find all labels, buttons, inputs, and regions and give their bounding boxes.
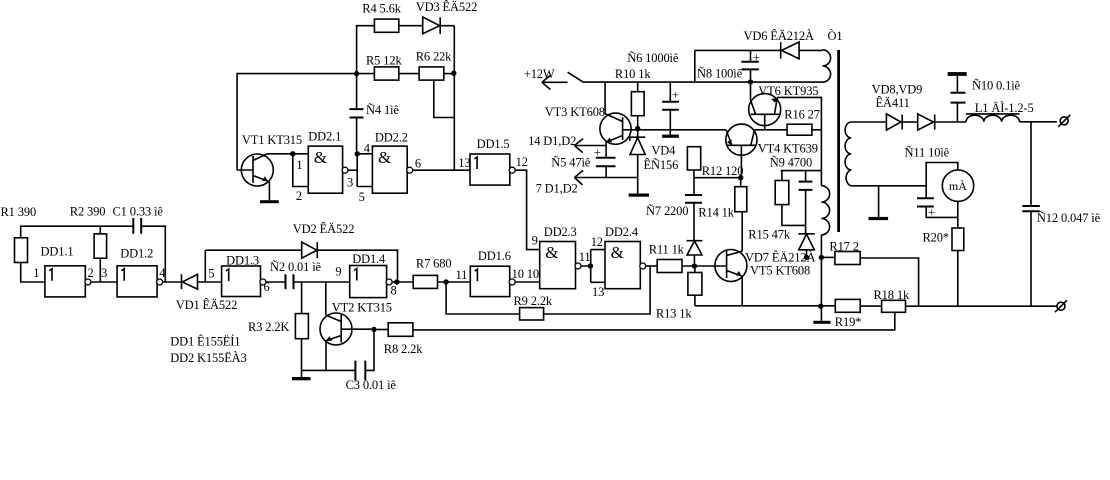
wire VD8 to VD9 — [902, 121, 918, 123]
svg-text:+: + — [672, 88, 679, 102]
wire C11 leads — [926, 186, 958, 218]
svg-text:&: & — [545, 243, 558, 262]
junction DD1.4 output node — [394, 279, 399, 284]
ground at R3 C3 rail — [292, 377, 311, 380]
transistor VT3 — [600, 113, 631, 144]
wire L1 to output terminal — [1020, 121, 1057, 123]
capacitor C11 polarized — [917, 198, 934, 206]
gate DD1.2 — [117, 266, 163, 297]
svg-text:DD1.6: DD1.6 — [478, 249, 511, 263]
svg-text:R4 5.6k: R4 5.6k — [362, 2, 401, 16]
wire R15 C9 top bus — [781, 170, 822, 172]
wire C1 right plate down to DD1.2 output node — [141, 226, 165, 282]
svg-text:13: 13 — [458, 156, 470, 170]
wire DD2.1 pin 2 loop — [293, 154, 309, 187]
capacitor C1 — [133, 218, 141, 234]
wire DD2.4 output to R11 — [645, 265, 657, 267]
ground at secondary winding — [869, 217, 889, 220]
junction VD7 chain output node — [804, 255, 809, 260]
svg-text:3: 3 — [347, 175, 353, 189]
svg-text:R2 390: R2 390 — [70, 205, 106, 219]
svg-text:VT6 KT935: VT6 KT935 — [758, 84, 818, 98]
svg-text:1: 1 — [296, 158, 302, 172]
svg-text:DD1.3: DD1.3 — [226, 253, 259, 267]
ground at VT1 emitter — [260, 200, 279, 203]
resistor R16 — [787, 124, 812, 135]
ground at R19 — [813, 321, 830, 324]
wire R12 bottom to VT4 base node — [694, 170, 741, 178]
transistor VT6 — [749, 94, 781, 126]
diode VD7 — [798, 234, 814, 250]
resistor R3 — [295, 314, 308, 339]
svg-text:VD4: VD4 — [651, 144, 676, 158]
resistor R13 — [688, 273, 702, 296]
svg-text:R20*: R20* — [923, 230, 950, 244]
wire VT4 collector to R16 — [754, 129, 787, 131]
svg-text:DD1.4: DD1.4 — [352, 252, 386, 266]
wire R7 to DD1.6 input pin 11 — [438, 281, 471, 283]
wire DD2.1 output to DD2.2 inputs 4 5 — [348, 154, 373, 187]
svg-text:+: + — [594, 146, 601, 160]
svg-text:DD2.1: DD2.1 — [308, 130, 341, 144]
resistor R15 — [775, 181, 789, 205]
terminal bottom output — [1055, 300, 1067, 312]
svg-text:R12 120: R12 120 — [702, 164, 744, 178]
diode VD1 — [182, 274, 198, 289]
wire VT3 collector drop — [604, 82, 606, 114]
svg-text:R15 47k: R15 47k — [748, 227, 791, 241]
svg-text:2: 2 — [296, 189, 302, 203]
svg-text:R19*: R19* — [835, 315, 862, 329]
wire R5 to R6 — [399, 73, 419, 75]
wire DD1.2 output to VD1 — [162, 281, 181, 283]
wire R3 top riser — [301, 282, 303, 314]
wire base rail VT3 to VT4 — [623, 129, 727, 131]
capacitor C4 — [350, 109, 364, 117]
svg-text:R7 680: R7 680 — [416, 257, 452, 271]
capacitor C8 polarized — [741, 62, 759, 70]
wire feedback riser to VD2 loop — [204, 250, 206, 282]
svg-text:R11 1k: R11 1k — [649, 243, 685, 257]
wire meter bottom to R20 — [957, 201, 959, 228]
wire R10 bottom to VD4 — [637, 116, 639, 138]
wire R9 right to DD2.4 output riser — [544, 266, 651, 314]
svg-text:12: 12 — [591, 235, 603, 249]
junction primary bottom R17 node — [819, 255, 824, 260]
wire VT6 emitter to transformer primary — [777, 97, 821, 185]
wire feedback drop to R9 — [446, 282, 519, 314]
svg-text:R17 2: R17 2 — [829, 239, 858, 253]
gate DD1.4 — [350, 266, 392, 298]
svg-text:&: & — [314, 148, 327, 167]
wire DD1.5 output pin 12 down to DD2.3 pin 9 — [515, 170, 540, 249]
svg-text:10 10: 10 10 — [512, 267, 539, 281]
svg-text:DD2.3: DD2.3 — [544, 225, 577, 239]
wire R10 top lead — [637, 82, 639, 92]
junction C4 DD2.2 input node — [355, 151, 360, 156]
svg-text:2: 2 — [88, 266, 94, 280]
transformer T1 secondary winding — [845, 122, 851, 186]
svg-text:ÊÄ411: ÊÄ411 — [876, 96, 910, 110]
wire upper rail to VD6 — [695, 49, 781, 51]
svg-text:L1 ÄÌ-1.2-5: L1 ÄÌ-1.2-5 — [975, 101, 1034, 115]
wire VT2 base — [341, 328, 374, 330]
resistor R8 — [388, 323, 413, 337]
svg-text:Ñ6 1000ìê: Ñ6 1000ìê — [627, 51, 679, 65]
junction C8 rail node — [748, 79, 753, 84]
wire R4 branch left riser — [357, 26, 375, 74]
svg-text:VD3 ÊÄ522: VD3 ÊÄ522 — [416, 0, 478, 14]
svg-text:11: 11 — [579, 250, 591, 264]
wire C12 top lead — [1030, 122, 1032, 206]
svg-text:R3 2.2K: R3 2.2K — [248, 320, 289, 334]
resistor R20 — [952, 228, 964, 251]
transistor VT1 — [241, 154, 273, 186]
svg-text:R13 1k: R13 1k — [656, 307, 692, 321]
wire R13 leads — [694, 266, 696, 306]
meter PA mA — [942, 170, 973, 201]
resistor R14 — [735, 187, 747, 212]
diode VD5 — [687, 241, 703, 255]
wire R17 left lead — [821, 256, 835, 258]
wire C3 left to R3 ground rail — [302, 369, 356, 371]
svg-text:mÀ: mÀ — [949, 179, 967, 193]
svg-text:VD2 ÊÄ522: VD2 ÊÄ522 — [293, 222, 355, 236]
svg-text:13: 13 — [592, 285, 604, 299]
svg-text:DD2.4: DD2.4 — [605, 225, 639, 239]
wire VT6 collector drop — [750, 82, 752, 99]
svg-text:Ñ7 2200: Ñ7 2200 — [646, 204, 688, 218]
gate DD2.2 — [372, 146, 412, 193]
svg-text:Ñ8 100ìê: Ñ8 100ìê — [697, 66, 743, 80]
diode VD3 — [423, 17, 441, 34]
gate DD1.5 — [470, 154, 515, 185]
svg-text:R8 2.2k: R8 2.2k — [384, 342, 423, 356]
svg-text:VT5 KT608: VT5 KT608 — [750, 264, 810, 278]
junction R19 output rail node — [818, 304, 823, 309]
junction node A R5 C4 — [354, 71, 359, 76]
wire ground stub below R19 node — [820, 306, 822, 321]
svg-text:VD6 ÊÄ212À: VD6 ÊÄ212À — [744, 29, 814, 43]
wire C4 top lead — [356, 74, 358, 110]
resistor R10 — [631, 92, 644, 116]
svg-text:9: 9 — [532, 234, 538, 248]
resistor R7 — [413, 275, 437, 288]
wire VT6 base lead — [764, 114, 766, 130]
svg-text:1: 1 — [33, 266, 39, 280]
resistor R19 — [835, 299, 860, 312]
wire R2 bottom lead — [99, 258, 101, 282]
switch stroke — [568, 72, 583, 82]
wire C6 top lead — [669, 82, 671, 102]
wire R20 bottom lead — [957, 251, 959, 307]
arrow 7 D1,D2 — [574, 170, 583, 185]
resistor R2 — [94, 234, 107, 258]
capacitor C10 — [951, 93, 966, 103]
wire R16 right to transformer riser — [812, 129, 822, 131]
svg-text:6: 6 — [415, 156, 421, 170]
svg-text:R18 1k: R18 1k — [874, 288, 910, 302]
wire VD2 loop top left — [205, 249, 301, 251]
capacitor C5 polarized — [596, 158, 616, 167]
wire R2 top lead — [99, 226, 101, 234]
diode VD8 — [886, 114, 902, 130]
resistor R17 — [835, 252, 860, 265]
wire R3 bottom lead — [301, 339, 303, 371]
svg-text:14 D1,D2: 14 D1,D2 — [528, 134, 576, 148]
wire C6 bottom lead to ground — [669, 110, 671, 135]
svg-text:9: 9 — [335, 264, 341, 278]
resistor R12 — [687, 147, 700, 170]
svg-text:Ñ9 4700: Ñ9 4700 — [770, 155, 812, 169]
svg-text:6: 6 — [264, 280, 270, 294]
junction node B R6 VD3 — [451, 71, 456, 76]
junction VT2 base R8 C3 node — [371, 327, 376, 332]
svg-text:VD8,VD9: VD8,VD9 — [872, 82, 923, 96]
svg-text:R16 27: R16 27 — [784, 107, 820, 121]
svg-text:C1 0.33 ìê: C1 0.33 ìê — [113, 205, 164, 219]
wire +12V arrow lead — [542, 81, 568, 83]
wire C4 bottom lead — [356, 118, 358, 154]
wire VD9 to L1 — [935, 121, 966, 123]
capacitor C6 polarized — [662, 102, 679, 110]
svg-text:Ò1: Ò1 — [828, 29, 843, 43]
arrow 14 D1,D2 — [574, 139, 583, 153]
capacitor C12 — [1022, 206, 1040, 211]
junction R7 DD1.6 node — [443, 279, 448, 284]
svg-text:DD1.1: DD1.1 — [41, 244, 74, 258]
transistor VT5 — [715, 250, 747, 282]
capacitor C3 — [355, 361, 365, 381]
svg-text:11: 11 — [456, 268, 468, 282]
wire R8 left to VT2 base node — [374, 329, 388, 331]
wire secondary top to VD8 — [851, 121, 886, 123]
wire VD3 right down to DD1.5 input — [440, 26, 454, 171]
wire bottom emitter rail to R19 chain — [695, 305, 1057, 307]
wire DD1.6 output pin 10 to DD2.3 pin 10 — [515, 281, 540, 283]
capacitor C7 — [685, 195, 702, 203]
wire R6 bottom hook — [434, 80, 455, 117]
svg-text:Ñ2 0.01 ìê: Ñ2 0.01 ìê — [270, 260, 322, 274]
diode VD2 — [302, 242, 318, 258]
wire VT4 base lead — [740, 145, 742, 177]
svg-text:&: & — [378, 148, 391, 167]
gate DD2.1 — [308, 146, 348, 193]
wire R5 left lead — [357, 73, 375, 75]
junction VT4 base R14 node — [738, 175, 743, 180]
transformer T1 primary bottom winding — [821, 186, 829, 235]
svg-text:DD1.2: DD1.2 — [120, 247, 153, 261]
wire DD1.1 output to DD1.2 input — [90, 281, 117, 283]
svg-text:+: + — [928, 206, 935, 220]
resistor R11 — [657, 260, 682, 273]
svg-text:Ñ11 10ìê: Ñ11 10ìê — [905, 145, 950, 159]
wire R4 to VD3 — [399, 25, 423, 27]
wire C11 top loop to meter top — [926, 163, 958, 186]
wire R1 top to C1 left (osc node A) — [21, 226, 134, 238]
svg-text:VT4 KT639: VT4 KT639 — [758, 142, 818, 156]
diode VD9 — [918, 114, 935, 130]
svg-text:VT2 KT315: VT2 KT315 — [332, 301, 392, 315]
wire R18 bottom tap feedback to R8 — [413, 312, 895, 330]
capacitor C2 — [286, 274, 294, 289]
svg-text:R6 22k: R6 22k — [416, 49, 452, 63]
svg-text:Ñ4 1ìê: Ñ4 1ìê — [366, 103, 399, 117]
resistor R5 — [374, 67, 398, 80]
wire VT5 emitter down — [741, 276, 743, 306]
wire C10 bottom lead — [956, 76, 958, 122]
svg-text:3: 3 — [101, 266, 107, 280]
wire R14 top to VT4 base node — [740, 178, 742, 187]
wire VT1 collector to DD2.1 pin 1 — [267, 153, 308, 155]
wire R15 leads — [782, 171, 806, 226]
arrow +12V supply — [542, 75, 551, 89]
svg-text:R5 12k: R5 12k — [366, 54, 402, 68]
svg-text:4: 4 — [364, 142, 371, 156]
svg-text:R9 2.2k: R9 2.2k — [514, 294, 553, 308]
gate DD1.6 — [470, 266, 515, 296]
ground below C6 — [662, 135, 679, 138]
wire VD2 loop top right down to DD1.4 output node — [317, 250, 397, 282]
svg-text:VT3 KT608: VT3 KT608 — [545, 105, 605, 119]
wire VT1 emitter down — [268, 181, 270, 200]
svg-text:DD2.2: DD2.2 — [375, 131, 408, 145]
wire DD2.3 output pin 11 to DD2.4 inputs 12 13 — [581, 250, 606, 283]
wire C3 right plate riser — [365, 330, 374, 371]
wire ground stub below R3 rail — [301, 370, 303, 377]
svg-text:R10 1k: R10 1k — [615, 67, 651, 81]
gate DD2.4 — [605, 242, 646, 289]
svg-text:Ñ5 47ìê: Ñ5 47ìê — [551, 155, 590, 169]
gate DD1.3 — [222, 266, 266, 297]
wire C8 leads — [750, 50, 752, 82]
capacitor C9 — [799, 182, 813, 190]
resistor R6 — [419, 67, 444, 80]
svg-text:R1 390: R1 390 — [1, 205, 37, 219]
svg-text:ÊÑ156: ÊÑ156 — [644, 158, 679, 172]
svg-text:C3 0.01 ìê: C3 0.01 ìê — [346, 378, 397, 392]
wire transformer primary bottom to R17 and R19 nodes — [820, 235, 822, 306]
wire VT2 emitter down — [325, 341, 327, 371]
inductor L1 — [966, 114, 1020, 122]
svg-text:DD2 K155ËÀ3: DD2 K155ËÀ3 — [170, 351, 246, 365]
wire secondary ground stub — [878, 186, 880, 217]
svg-text:DD1.5: DD1.5 — [477, 137, 510, 151]
wire R1 bottom to DD1.1 input pin 1 — [21, 263, 45, 283]
transistor VT4 — [726, 124, 757, 155]
junction VT1 collector node — [290, 151, 295, 156]
junction VD7 VT5 base node — [692, 263, 697, 268]
resistor R4 — [374, 19, 398, 32]
svg-text:5: 5 — [359, 190, 365, 204]
transformer T1 primary top winding — [823, 50, 831, 82]
wire DD1.4 output to R7 — [392, 281, 414, 283]
svg-text:+12W: +12W — [524, 67, 555, 81]
wire C2 to DD1.4 input pin 9 — [294, 281, 350, 283]
wire secondary bottom to C11 node — [851, 185, 926, 187]
wire R17 right loop down to output rail — [860, 258, 918, 306]
transistor VT2 — [320, 313, 352, 345]
wire DD2.2 output to DD1.5 input pin 13 — [412, 169, 470, 171]
diode VD6 — [781, 42, 799, 59]
svg-text:7 D1,D2: 7 D1,D2 — [536, 182, 578, 196]
svg-text:&: & — [611, 243, 624, 262]
svg-text:Ñ10 0.1ìê: Ñ10 0.1ìê — [972, 79, 1021, 93]
wire C7 VD5 chain — [693, 178, 695, 266]
zener diode VD4 — [630, 137, 646, 154]
terminal top output — [1058, 115, 1070, 127]
wire main +12V rail — [583, 81, 823, 83]
svg-text:VT1 KT315: VT1 KT315 — [242, 133, 302, 147]
wire VT5 collector to R14 — [741, 212, 743, 252]
wire VT2 collector riser — [325, 282, 327, 315]
junction DD2.3 output node — [588, 263, 593, 268]
gate DD2.3 — [540, 242, 581, 289]
svg-text:12: 12 — [516, 155, 528, 169]
wire riser between rails — [694, 50, 696, 82]
wire VT3 emitter and 14 D1,D2 arrow wire — [574, 142, 606, 158]
chassis bar above C10 — [948, 72, 967, 76]
ground at VD4 — [629, 194, 649, 197]
svg-text:5: 5 — [208, 266, 214, 280]
svg-text:DD1 Ê155ËÍ1: DD1 Ê155ËÍ1 — [170, 335, 240, 349]
svg-text:VD1 ÊÄ522: VD1 ÊÄ522 — [176, 298, 238, 312]
gate DD1.1 — [45, 266, 91, 297]
resistor R18 — [882, 300, 906, 312]
svg-text:4: 4 — [159, 266, 166, 280]
wire VD4 to ground — [637, 155, 639, 194]
wire VT1 base loop to R5 node — [237, 74, 357, 170]
resistor R1 — [15, 238, 28, 263]
resistor R9 — [520, 308, 544, 320]
svg-text:+: + — [753, 51, 760, 65]
wire C5 bottom and 7 D1,D2 arrow wire — [574, 166, 637, 177]
svg-text:R14 1k: R14 1k — [698, 206, 734, 220]
wire C9 leads and VD7 chain — [805, 171, 808, 258]
wire C12 bottom lead — [1030, 211, 1032, 306]
transformer T1 core — [837, 50, 840, 232]
wire VD1 to DD1.3 input pin 5 — [198, 281, 222, 283]
junction R10 VT3 base node — [635, 126, 640, 131]
wire VD6 to primary top — [799, 49, 822, 51]
svg-text:Ñ12 0.047 ìê: Ñ12 0.047 ìê — [1037, 211, 1101, 225]
wire R6 right to node B — [444, 73, 455, 75]
wire DD1.3 output to C2 — [265, 281, 285, 283]
wire R11 to VT5 base — [682, 265, 727, 267]
svg-text:8: 8 — [391, 284, 397, 298]
